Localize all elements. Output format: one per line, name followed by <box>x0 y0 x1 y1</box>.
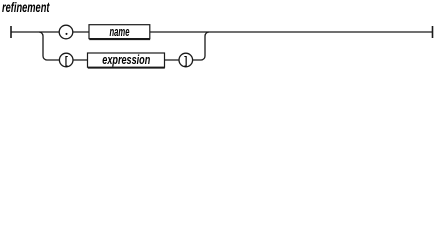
start marker <box>10 26 12 38</box>
wire: main top line <box>11 31 433 33</box>
end marker <box>432 26 434 38</box>
terminal circle: "." <box>59 25 73 39</box>
svg-text:[: [ <box>65 55 68 67</box>
svg-text:refinement: refinement <box>2 0 50 15</box>
svg-text:expression: expression <box>102 52 150 67</box>
terminal circle: "[" <box>59 53 73 67</box>
svg-text:]: ] <box>184 55 187 67</box>
nonterminal box: name <box>89 25 150 39</box>
terminal circle: "]" <box>179 53 193 67</box>
wire: merge from lower branch <box>201 32 209 60</box>
wire: split to lower branch <box>39 32 201 60</box>
nonterminal box: expression <box>88 53 165 67</box>
svg-text:name: name <box>110 24 130 39</box>
